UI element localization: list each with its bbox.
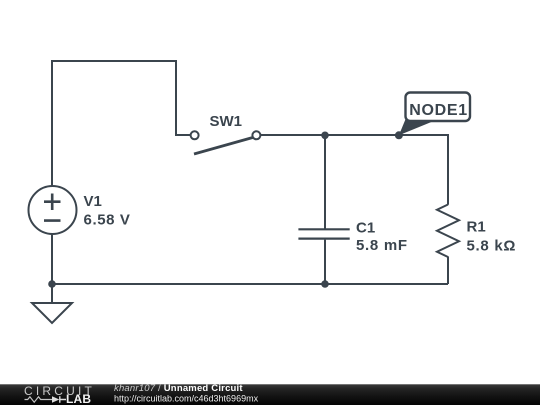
svg-text:V1: V1: [84, 193, 102, 210]
switch SW1: [191, 131, 261, 154]
wire V1 bottom to ground rail: [51, 234, 53, 284]
wire top rail from V1 to switch: [52, 61, 191, 186]
label R1 value: [467, 218, 517, 254]
resistor R1: [437, 205, 459, 258]
wire switch to R1 top corner: [260, 135, 448, 205]
svg-text:R1: R1: [467, 218, 486, 235]
wire C1 branch top: [324, 135, 326, 229]
CircuitLab logo: [24, 384, 95, 405]
voltage source V1: [29, 186, 77, 234]
svg-text:SW1: SW1: [210, 113, 243, 130]
svg-text:http://circuitlab.com/c46d3ht6: http://circuitlab.com/c46d3ht6969mx: [114, 393, 259, 403]
label C1 value: [356, 219, 408, 254]
wire C1 branch bottom: [324, 240, 326, 284]
svg-text:NODE1: NODE1: [409, 102, 468, 119]
capacitor C1: [298, 229, 349, 238]
junction dot C1 bottom: [321, 280, 329, 288]
node junction dot at C1 tap: [321, 132, 329, 140]
svg-text:LAB: LAB: [66, 392, 91, 405]
ground: [32, 284, 72, 323]
node NODE1 junction dot: [395, 131, 403, 139]
label SW1: [210, 113, 243, 130]
footer bar: [0, 384, 540, 405]
wire R1 bottom to rail: [447, 257, 449, 285]
footer title text: [114, 383, 259, 403]
svg-text:khanr107 / Unnamed Circuit: khanr107 / Unnamed Circuit: [114, 383, 243, 394]
svg-text:C1: C1: [356, 219, 375, 236]
wire bottom rail: [52, 283, 448, 285]
label V1 value: [84, 193, 131, 229]
node NODE1 callout: [399, 93, 470, 136]
svg-text:5.8 mF: 5.8 mF: [356, 237, 408, 254]
junction dot ground tap: [48, 280, 56, 288]
svg-text:5.8 kΩ: 5.8 kΩ: [467, 238, 517, 255]
svg-text:6.58 V: 6.58 V: [84, 211, 131, 228]
